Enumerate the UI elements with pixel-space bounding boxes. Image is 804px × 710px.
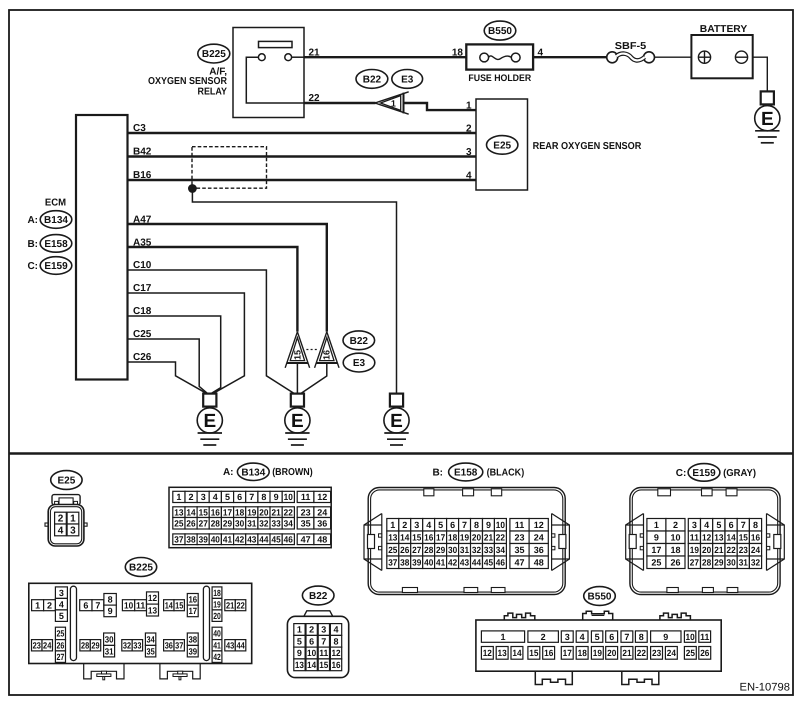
- svg-text:28: 28: [211, 519, 220, 529]
- svg-text:15: 15: [739, 533, 748, 543]
- svg-text:A35: A35: [133, 238, 152, 249]
- shield junction dot: [189, 185, 197, 193]
- svg-text:11: 11: [136, 600, 145, 610]
- svg-text:12: 12: [702, 533, 711, 543]
- svg-text:7: 7: [249, 492, 254, 502]
- header A B134 BROWN: [223, 463, 313, 480]
- svg-text:3: 3: [414, 520, 419, 530]
- connector label B550 fuse holder: [484, 21, 516, 40]
- svg-text:19: 19: [460, 533, 469, 543]
- svg-text:6: 6: [309, 637, 314, 647]
- svg-text:16: 16: [751, 533, 760, 543]
- svg-text:12: 12: [483, 648, 492, 658]
- svg-text:1: 1: [500, 632, 505, 642]
- svg-text:43: 43: [460, 558, 469, 568]
- svg-text:29: 29: [223, 519, 232, 529]
- svg-text:46: 46: [284, 535, 293, 545]
- svg-text:25: 25: [174, 519, 183, 529]
- svg-text:E158: E158: [44, 239, 68, 250]
- connector B E158 pin grid: [387, 519, 549, 569]
- svg-text:4: 4: [580, 632, 585, 642]
- svg-text:3: 3: [70, 526, 76, 537]
- svg-text:2: 2: [188, 492, 193, 502]
- svg-text:44: 44: [259, 535, 268, 545]
- connector B E158 top bumps: [424, 489, 502, 496]
- svg-text:14: 14: [400, 533, 409, 543]
- svg-text:16: 16: [544, 648, 553, 658]
- svg-text:21: 21: [622, 648, 631, 658]
- svg-text:36: 36: [165, 641, 173, 651]
- svg-text:17: 17: [188, 606, 197, 616]
- connector B550 top bracket right: [660, 613, 691, 620]
- connector label E25 view: [51, 471, 82, 490]
- svg-text:4: 4: [59, 599, 64, 609]
- relay box A/F oxygen sensor relay: [233, 28, 304, 118]
- ECM connector B label E158: [27, 235, 71, 253]
- svg-text:44: 44: [472, 558, 481, 568]
- svg-text:14: 14: [186, 507, 195, 517]
- svg-text:4: 4: [58, 526, 64, 537]
- svg-text:4: 4: [213, 492, 218, 502]
- connector B550 pin cells row1: [481, 631, 710, 642]
- svg-text:1: 1: [390, 520, 395, 530]
- svg-text:6: 6: [237, 492, 242, 502]
- svg-text:6: 6: [729, 520, 734, 530]
- svg-text:29: 29: [714, 558, 723, 568]
- svg-text:39: 39: [412, 558, 421, 568]
- wire A47 to noise filter 16: [128, 224, 327, 332]
- connector label B22 mid: [343, 331, 375, 350]
- svg-text:35: 35: [301, 519, 311, 529]
- svg-text:12: 12: [148, 593, 157, 603]
- svg-text:26: 26: [186, 519, 195, 529]
- svg-text:6: 6: [450, 520, 455, 530]
- svg-text:7: 7: [95, 600, 100, 610]
- wire C25 to ground: [128, 339, 208, 393]
- svg-text:27: 27: [56, 652, 64, 662]
- svg-text:1: 1: [466, 100, 472, 111]
- svg-text:9: 9: [108, 606, 113, 616]
- battery box: [691, 35, 752, 78]
- svg-text:1: 1: [176, 492, 181, 502]
- svg-text:37: 37: [175, 641, 183, 651]
- svg-text:23: 23: [301, 507, 311, 517]
- svg-text:11: 11: [515, 520, 525, 530]
- svg-text:47: 47: [514, 558, 524, 568]
- svg-text:5: 5: [59, 611, 64, 621]
- connector E25 view body: [45, 495, 87, 546]
- svg-text:27: 27: [199, 519, 208, 529]
- svg-text:43: 43: [226, 641, 234, 651]
- svg-text:40: 40: [213, 629, 221, 639]
- svg-text:35: 35: [147, 646, 155, 656]
- svg-text:E3: E3: [401, 75, 414, 86]
- svg-text:15: 15: [529, 648, 538, 658]
- wire C10 to ground: [128, 270, 294, 393]
- svg-text:20: 20: [702, 545, 711, 555]
- wire A35 to noise filter 15: [128, 247, 298, 332]
- svg-text:B22: B22: [363, 75, 382, 86]
- svg-text:B:: B:: [27, 239, 38, 250]
- svg-text:BATTERY: BATTERY: [700, 24, 748, 35]
- connector A B134 outer box: [169, 487, 331, 547]
- connector C E159 right latch: [767, 514, 785, 571]
- noise filter 1 joint connector: [375, 92, 409, 114]
- svg-text:44: 44: [236, 641, 244, 651]
- svg-text:26: 26: [700, 648, 709, 658]
- svg-text:1: 1: [654, 520, 659, 530]
- svg-text:4: 4: [333, 625, 338, 635]
- relay contact right: [285, 54, 292, 61]
- svg-text:23: 23: [739, 545, 748, 555]
- connector C E159 bottom tabs: [667, 588, 738, 593]
- svg-text:23: 23: [33, 641, 41, 651]
- svg-text:11: 11: [301, 492, 311, 502]
- wire relay pin22 to noise filter: [304, 102, 376, 104]
- svg-text:9: 9: [663, 632, 668, 642]
- connector B E158 left latch: [364, 514, 382, 571]
- svg-text:ECM: ECM: [45, 197, 66, 208]
- relay contact left: [258, 54, 265, 61]
- svg-text:18: 18: [448, 533, 457, 543]
- noise filter 16: [315, 332, 339, 368]
- svg-text:12: 12: [534, 520, 544, 530]
- svg-text:2: 2: [541, 632, 546, 642]
- svg-text:1: 1: [70, 514, 76, 525]
- svg-text:26: 26: [400, 545, 409, 555]
- svg-text:41: 41: [436, 558, 445, 568]
- svg-text:39: 39: [188, 646, 197, 656]
- connector label E25 sensor: [487, 136, 518, 155]
- ECM box: [76, 115, 128, 380]
- relay internal wire contact to pin 22: [246, 57, 304, 103]
- svg-text:32: 32: [259, 519, 268, 529]
- svg-text:E: E: [761, 109, 774, 130]
- svg-text:24: 24: [751, 545, 760, 555]
- svg-text:18: 18: [235, 507, 244, 517]
- svg-text:2: 2: [673, 520, 678, 530]
- svg-text:32: 32: [472, 545, 481, 555]
- svg-text:7: 7: [624, 632, 629, 642]
- svg-text:13: 13: [295, 660, 304, 670]
- svg-text:46: 46: [496, 558, 505, 568]
- wire triangle15 to ground2: [296, 363, 298, 394]
- svg-text:2: 2: [402, 520, 407, 530]
- svg-text:21: 21: [484, 533, 493, 543]
- connector B E158 bottom tabs: [402, 588, 505, 593]
- svg-text:B550: B550: [488, 26, 512, 37]
- svg-text:20: 20: [213, 611, 221, 621]
- wire C18 to ground: [128, 316, 221, 393]
- svg-text:14: 14: [727, 533, 736, 543]
- svg-text:FUSE HOLDER: FUSE HOLDER: [468, 73, 531, 84]
- svg-text:22: 22: [236, 600, 244, 610]
- svg-text:E: E: [291, 411, 304, 432]
- svg-text:29: 29: [436, 545, 445, 555]
- svg-text:24: 24: [667, 648, 676, 658]
- svg-text:6: 6: [83, 600, 88, 610]
- svg-text:43: 43: [247, 535, 256, 545]
- svg-text:5: 5: [716, 520, 721, 530]
- svg-text:40: 40: [211, 535, 220, 545]
- ground E battery: [755, 91, 780, 142]
- relay name text: [148, 66, 228, 97]
- svg-text:21: 21: [714, 545, 723, 555]
- svg-text:18: 18: [578, 648, 587, 658]
- svg-text:15: 15: [199, 507, 208, 517]
- wire triangle16 to ground2: [301, 363, 327, 393]
- svg-text:B:: B:: [432, 467, 443, 478]
- ECM connector A label B134: [27, 211, 71, 229]
- connector label B22 top: [356, 70, 388, 89]
- svg-text:8: 8: [108, 595, 113, 605]
- svg-text:18: 18: [670, 545, 680, 555]
- svg-text:40: 40: [424, 558, 433, 568]
- connector B22 pin grid: [294, 624, 342, 671]
- svg-text:31: 31: [247, 519, 256, 529]
- svg-text:C25: C25: [133, 329, 152, 340]
- svg-text:2: 2: [47, 600, 52, 610]
- svg-text:B134: B134: [241, 467, 265, 478]
- svg-text:30: 30: [448, 545, 457, 555]
- svg-text:17: 17: [223, 507, 232, 517]
- svg-text:E158: E158: [454, 468, 478, 479]
- connector B550 top bracket left: [504, 613, 535, 620]
- svg-text:(GRAY): (GRAY): [723, 468, 756, 479]
- rear oxygen sensor box E25: [476, 99, 528, 190]
- svg-text:12: 12: [331, 648, 340, 658]
- svg-text:13: 13: [388, 533, 397, 543]
- connector B225 mount bracket left: [84, 664, 124, 680]
- svg-text:A:: A:: [27, 215, 38, 226]
- svg-text:5: 5: [297, 637, 302, 647]
- connector label E3 mid: [343, 353, 375, 372]
- shield dashed box: [192, 147, 267, 189]
- svg-text:C10: C10: [133, 260, 152, 271]
- svg-text:29: 29: [91, 641, 99, 651]
- connector B225 divider pill right: [203, 586, 209, 660]
- svg-text:10: 10: [670, 533, 680, 543]
- svg-text:A47: A47: [133, 215, 152, 226]
- svg-text:5: 5: [225, 492, 230, 502]
- svg-text:27: 27: [412, 545, 421, 555]
- connector B22 body: [287, 611, 348, 678]
- svg-text:1: 1: [35, 600, 40, 610]
- svg-text:E3: E3: [353, 358, 366, 369]
- section separator line: [9, 452, 793, 454]
- fuse holder box B550: [466, 44, 533, 69]
- connector C E159 pin grid: [647, 519, 762, 569]
- svg-text:16: 16: [188, 595, 197, 605]
- svg-text:18: 18: [452, 48, 464, 59]
- svg-text:33: 33: [133, 641, 141, 651]
- svg-text:19: 19: [593, 648, 602, 658]
- svg-text:E25: E25: [58, 476, 76, 487]
- svg-text:C:: C:: [676, 468, 687, 479]
- svg-text:42: 42: [213, 652, 221, 662]
- relay coil bar: [259, 41, 293, 47]
- svg-text:25: 25: [651, 558, 661, 568]
- svg-text:47: 47: [301, 535, 311, 545]
- ground E left: [197, 394, 222, 445]
- svg-text:33: 33: [484, 545, 493, 555]
- svg-text:EN-10798: EN-10798: [740, 681, 791, 693]
- svg-text:12: 12: [317, 492, 327, 502]
- svg-text:33: 33: [272, 519, 281, 529]
- svg-text:31: 31: [460, 545, 469, 555]
- svg-text:10: 10: [686, 632, 695, 642]
- svg-text:8: 8: [639, 632, 644, 642]
- svg-text:E: E: [203, 411, 216, 432]
- wire B16 to sensor pin4: [128, 179, 477, 181]
- svg-text:37: 37: [174, 535, 183, 545]
- connector B E158 right latch: [552, 514, 570, 571]
- svg-text:B134: B134: [44, 215, 68, 226]
- wire SBF-5 to battery: [655, 56, 692, 58]
- connector B E158 shell: [368, 488, 565, 595]
- svg-text:5: 5: [595, 632, 600, 642]
- svg-text:10: 10: [124, 600, 133, 610]
- svg-text:B225: B225: [202, 49, 226, 60]
- svg-text:24: 24: [534, 533, 544, 543]
- ground E right shield: [384, 394, 409, 445]
- svg-text:19: 19: [690, 545, 699, 555]
- svg-text:36: 36: [317, 519, 327, 529]
- svg-text:45: 45: [272, 535, 281, 545]
- svg-text:SBF-5: SBF-5: [615, 41, 647, 52]
- svg-text:22: 22: [496, 533, 505, 543]
- svg-text:28: 28: [424, 545, 433, 555]
- connector B550 outer box: [476, 620, 721, 671]
- svg-text:42: 42: [235, 535, 244, 545]
- svg-text:24: 24: [43, 641, 51, 651]
- svg-text:2: 2: [58, 514, 64, 525]
- svg-text:15: 15: [412, 533, 421, 543]
- svg-text:10: 10: [307, 648, 316, 658]
- svg-text:13: 13: [148, 605, 157, 615]
- svg-text:32: 32: [751, 558, 760, 568]
- svg-text:C17: C17: [133, 283, 152, 294]
- svg-text:B42: B42: [133, 147, 152, 158]
- svg-text:B16: B16: [133, 170, 152, 181]
- svg-text:1: 1: [391, 99, 396, 109]
- svg-text:42: 42: [448, 558, 457, 568]
- svg-text:10: 10: [496, 520, 505, 530]
- svg-text:17: 17: [436, 533, 445, 543]
- svg-text:B550: B550: [588, 592, 612, 603]
- svg-text:15: 15: [175, 600, 183, 610]
- noise filter 15: [285, 332, 309, 368]
- svg-text:28: 28: [702, 558, 711, 568]
- svg-text:9: 9: [654, 533, 659, 543]
- svg-text:8: 8: [261, 492, 266, 502]
- dotted link between filters: [306, 349, 318, 351]
- svg-text:5: 5: [438, 520, 443, 530]
- svg-text:37: 37: [388, 558, 397, 568]
- wire C26 to ground: [128, 362, 206, 393]
- connector B225 divider pill left: [70, 586, 76, 660]
- svg-text:C26: C26: [133, 352, 152, 363]
- svg-text:8: 8: [333, 637, 338, 647]
- connector C E159 shell: [630, 488, 780, 595]
- svg-text:A:: A:: [223, 467, 234, 478]
- svg-text:38: 38: [186, 535, 195, 545]
- svg-text:C18: C18: [133, 306, 152, 317]
- svg-text:8: 8: [474, 520, 479, 530]
- svg-text:C3: C3: [133, 123, 146, 134]
- svg-text:41: 41: [223, 535, 232, 545]
- svg-text:17: 17: [563, 648, 572, 658]
- svg-text:(BROWN): (BROWN): [272, 467, 313, 478]
- svg-text:9: 9: [486, 520, 491, 530]
- connector label E3 top: [392, 70, 423, 89]
- svg-text:34: 34: [147, 634, 155, 644]
- wire C17 to ground: [128, 293, 245, 393]
- svg-text:3: 3: [321, 625, 326, 635]
- svg-text:41: 41: [213, 641, 221, 651]
- svg-text:15: 15: [319, 660, 328, 670]
- svg-text:17: 17: [651, 545, 661, 555]
- connector A B134 pin grid: [173, 491, 331, 544]
- svg-text:11: 11: [319, 648, 328, 658]
- svg-text:22: 22: [727, 545, 736, 555]
- svg-text:3: 3: [565, 632, 570, 642]
- svg-text:7: 7: [462, 520, 467, 530]
- svg-text:1: 1: [297, 625, 302, 635]
- svg-text:38: 38: [188, 634, 197, 644]
- svg-text:E25: E25: [493, 141, 511, 152]
- svg-text:25: 25: [56, 629, 64, 639]
- svg-text:11: 11: [700, 632, 709, 642]
- svg-text:30: 30: [727, 558, 736, 568]
- svg-text:B22: B22: [309, 591, 328, 602]
- svg-text:13: 13: [498, 648, 507, 658]
- svg-text:20: 20: [259, 507, 268, 517]
- svg-text:4: 4: [426, 520, 431, 530]
- svg-text:32: 32: [123, 641, 131, 651]
- connector B225 mount bracket right: [160, 664, 200, 680]
- svg-text:7: 7: [741, 520, 746, 530]
- fuse element in holder: [480, 53, 520, 62]
- svg-text:2: 2: [309, 625, 314, 635]
- svg-text:31: 31: [105, 646, 114, 656]
- connector B550 bottom bracket left: [535, 671, 572, 684]
- svg-text:13: 13: [174, 507, 183, 517]
- svg-text:30: 30: [235, 519, 244, 529]
- svg-text:E: E: [390, 411, 403, 432]
- connector C E159 top bumps: [658, 489, 737, 496]
- connector label B550 view: [584, 587, 616, 606]
- svg-text:39: 39: [199, 535, 208, 545]
- wire B42 to sensor pin3: [128, 155, 477, 157]
- wire C3 to sensor pin2: [128, 132, 477, 134]
- svg-text:RELAY: RELAY: [198, 87, 228, 98]
- shield drain wire to ground: [192, 189, 396, 394]
- svg-text:16: 16: [331, 660, 340, 670]
- svg-text:26: 26: [670, 558, 680, 568]
- svg-text:36: 36: [534, 545, 544, 555]
- connector B550 top bracket middle: [583, 611, 613, 620]
- connector E25 pin grid: [55, 512, 79, 536]
- svg-text:48: 48: [317, 535, 327, 545]
- svg-text:3: 3: [59, 588, 64, 598]
- battery negative terminal: [735, 51, 747, 63]
- svg-text:27: 27: [690, 558, 699, 568]
- svg-text:22: 22: [637, 648, 646, 658]
- svg-text:10: 10: [284, 492, 293, 502]
- svg-text:18: 18: [213, 588, 221, 598]
- svg-text:35: 35: [514, 545, 524, 555]
